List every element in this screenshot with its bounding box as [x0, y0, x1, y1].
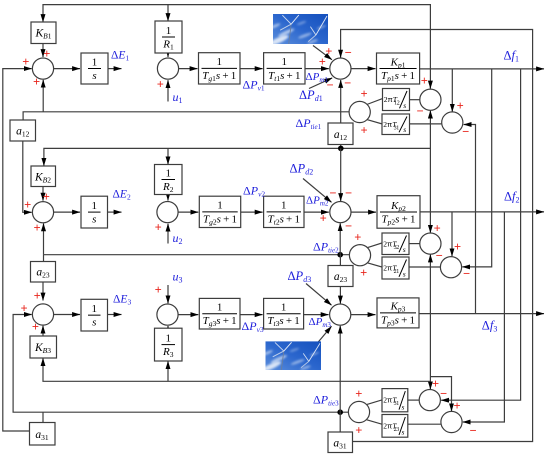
svg-text:+: +	[360, 87, 367, 101]
svg-text:−: −	[436, 249, 443, 263]
svg-text:+: +	[34, 289, 41, 303]
svg-text:−: −	[469, 424, 476, 438]
svg-text:+: +	[319, 55, 326, 69]
svg-text:s: s	[403, 270, 406, 279]
svg-text:1: 1	[217, 200, 223, 212]
svg-text:s: s	[403, 245, 406, 254]
svg-text:32: 32	[394, 245, 400, 251]
svg-text:−: −	[344, 76, 351, 90]
svg-text:s: s	[92, 317, 96, 329]
svg-text:1: 1	[92, 56, 98, 68]
svg-text:+: +	[453, 399, 460, 413]
svg-text:+: +	[43, 190, 50, 204]
svg-text:+: +	[33, 221, 40, 235]
svg-text:+: +	[360, 124, 367, 138]
svg-text:1: 1	[217, 56, 223, 68]
svg-text:+: +	[155, 221, 162, 235]
svg-text:Tg3s + 1: Tg3s + 1	[203, 315, 237, 328]
svg-text:1: 1	[217, 302, 223, 314]
svg-text:−: −	[463, 267, 470, 281]
svg-text:1: 1	[281, 200, 287, 212]
svg-text:−: −	[329, 186, 336, 200]
svg-text:+: +	[432, 377, 439, 391]
svg-text:s: s	[402, 402, 405, 411]
svg-text:23: 23	[394, 427, 400, 433]
svg-text:Tg1s + 1: Tg1s + 1	[202, 70, 236, 83]
svg-text:1: 1	[166, 167, 172, 179]
svg-text:21: 21	[394, 269, 400, 275]
svg-text:−: −	[345, 186, 352, 200]
svg-text:+: +	[33, 75, 40, 89]
svg-text:1: 1	[282, 56, 288, 68]
svg-text:+: +	[457, 99, 464, 113]
svg-text:+: +	[24, 198, 31, 212]
svg-text:1: 1	[166, 25, 172, 37]
svg-text:31: 31	[394, 401, 400, 407]
svg-text:Tt1s + 1: Tt1s + 1	[268, 70, 300, 83]
svg-text:s: s	[403, 101, 406, 110]
svg-text:+: +	[20, 302, 27, 316]
svg-text:+: +	[157, 78, 164, 92]
svg-text:Tp1s + 1: Tp1s + 1	[381, 70, 415, 83]
svg-text:+: +	[360, 266, 367, 280]
svg-text:−: −	[345, 46, 352, 60]
svg-text:1: 1	[92, 303, 98, 315]
svg-text:1: 1	[166, 332, 172, 344]
svg-text:s: s	[402, 428, 405, 437]
svg-text:+: +	[320, 212, 327, 226]
svg-text:−: −	[416, 104, 423, 118]
svg-text:+: +	[454, 240, 461, 254]
svg-text:12: 12	[394, 101, 400, 107]
svg-text:+: +	[325, 45, 332, 59]
svg-text:Tg2s + 1: Tg2s + 1	[203, 213, 237, 226]
svg-text:+: +	[355, 424, 362, 438]
svg-text:+: +	[43, 47, 50, 61]
svg-text:Tt3s + 1: Tt3s + 1	[267, 315, 299, 328]
svg-text:+: +	[22, 55, 29, 69]
svg-text:Tp2s + 1: Tp2s + 1	[381, 213, 415, 226]
svg-text:−: −	[462, 125, 469, 139]
svg-text:1: 1	[92, 200, 98, 212]
svg-text:−: −	[345, 219, 352, 233]
svg-text:+: +	[354, 231, 361, 245]
svg-text:+: +	[355, 387, 362, 401]
svg-text:31: 31	[394, 125, 400, 131]
svg-text:+: +	[155, 283, 162, 297]
svg-text:−: −	[440, 387, 447, 401]
svg-text:Tp3s + 1: Tp3s + 1	[381, 314, 415, 327]
svg-text:+: +	[32, 320, 39, 334]
svg-text:+: +	[434, 222, 441, 236]
svg-text:+: +	[421, 74, 428, 88]
svg-text:Tt2s + 1: Tt2s + 1	[268, 213, 300, 226]
svg-text:1: 1	[281, 302, 287, 314]
svg-text:s: s	[92, 214, 96, 226]
svg-text:s: s	[92, 70, 96, 82]
svg-text:s: s	[403, 125, 406, 134]
